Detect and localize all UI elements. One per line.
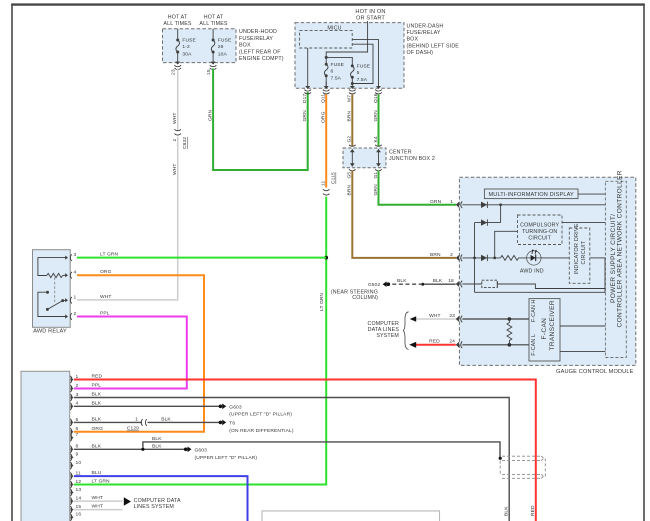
connector exit pin 23 (fuse 1-2) — [174, 62, 181, 70]
svg-text:AWD IND: AWD IND — [520, 269, 544, 275]
svg-text:7.5A: 7.5A — [357, 77, 368, 83]
ground T6 row5 — [219, 421, 223, 425]
wire pin2 branch up to compulsory box — [495, 231, 518, 258]
svg-text:CENTER: CENTER — [389, 149, 412, 155]
wire GRN Q16 to center junction box — [378, 95, 380, 147]
svg-text:BLU: BLU — [92, 470, 102, 476]
svg-text:HOT AT: HOT AT — [204, 15, 224, 21]
svg-text:6: 6 — [331, 69, 334, 75]
row1 wire RED to bottom right — [74, 380, 536, 521]
svg-text:2: 2 — [74, 311, 77, 317]
svg-text:FUSE: FUSE — [357, 64, 371, 70]
wire BLK pin18 external to G502 — [423, 283, 456, 285]
wire compulsory box to power supply box — [562, 222, 605, 224]
MICU box — [300, 31, 353, 48]
wire IDC to power bus — [590, 257, 606, 259]
svg-text:BRN: BRN — [430, 252, 441, 258]
svg-text:5: 5 — [357, 70, 360, 76]
svg-text:COMPULSORY: COMPULSORY — [520, 223, 559, 229]
svg-text:18: 18 — [448, 278, 454, 284]
svg-text:WHT: WHT — [172, 164, 178, 176]
gauge pin 2 connector — [456, 255, 463, 262]
MICU wire to Q16 exit — [352, 40, 378, 87]
indicator drive circuit box — [569, 228, 590, 283]
bottom partial box — [262, 511, 440, 521]
relay actuator dashed line — [54, 278, 56, 304]
svg-text:1-2: 1-2 — [182, 44, 190, 50]
svg-text:UNDER-DASH: UNDER-DASH — [407, 23, 444, 29]
svg-text:BLK: BLK — [152, 436, 162, 442]
pin24 internal wire F-CAN L — [462, 344, 529, 346]
fuse 5 7.5A — [351, 64, 355, 87]
svg-text:CONTROLLER AREA NETWORK CONTRO: CONTROLLER AREA NETWORK CONTROLLER — [617, 170, 624, 327]
svg-text:CIRCUIT: CIRCUIT — [581, 240, 587, 264]
wires transceiver to power box — [560, 325, 605, 327]
svg-text:11: 11 — [321, 181, 327, 186]
svg-text:23: 23 — [171, 69, 177, 75]
wire WHT fuse1-2 to C832 — [177, 69, 179, 131]
svg-text:BLK: BLK — [92, 417, 102, 423]
svg-text:BLK: BLK — [161, 417, 171, 423]
svg-text:7.5A: 7.5A — [331, 76, 342, 82]
svg-text:G603: G603 — [229, 404, 242, 410]
row5 wire BLK via C129 to ground T6 — [74, 421, 142, 423]
svg-text:4: 4 — [74, 270, 77, 276]
ground G502 — [331, 281, 390, 301]
relay wire labels — [100, 269, 112, 317]
svg-text:BLK: BLK — [92, 443, 102, 449]
svg-text:LT GRN: LT GRN — [100, 252, 119, 258]
svg-text:OR START: OR START — [356, 16, 385, 22]
svg-text:D17: D17 — [302, 94, 308, 103]
wire LT GRN relay pin3 to junction — [77, 257, 326, 259]
svg-text:ORG: ORG — [92, 426, 104, 432]
AWD relay box — [33, 250, 71, 328]
svg-text:30A: 30A — [182, 52, 192, 58]
svg-text:16: 16 — [76, 512, 82, 518]
fuse5 feedback wire to MICU — [351, 44, 373, 85]
computer data lines arrow + text — [124, 497, 131, 505]
svg-text:7: 7 — [76, 432, 79, 438]
wire BRN M7 to center junction box — [351, 95, 353, 147]
svg-text:WHT: WHT — [172, 113, 178, 125]
svg-text:MULTI-INFORMATION DISPLAY: MULTI-INFORMATION DISPLAY — [488, 192, 574, 198]
svg-text:JUNCTION BOX 2: JUNCTION BOX 2 — [389, 156, 435, 162]
svg-text:1: 1 — [450, 199, 453, 205]
under-dash box label — [407, 23, 460, 56]
row7 wire BLK long, joins row8 — [143, 442, 500, 458]
pin1 internal wiring with diodes — [462, 202, 605, 293]
svg-text:10: 10 — [76, 460, 82, 466]
svg-text:WHT: WHT — [429, 313, 441, 319]
svg-text:G603: G603 — [195, 447, 208, 453]
under-dash fuse/relay box — [295, 23, 404, 89]
ground G603 row8 — [184, 448, 188, 452]
svg-text:2: 2 — [450, 252, 453, 258]
svg-text:PPL: PPL — [92, 383, 102, 389]
svg-text:HOT IN ON: HOT IN ON — [355, 9, 385, 15]
computer data lines brace + text — [403, 312, 408, 350]
svg-text:LINES SYSTEM: LINES SYSTEM — [134, 504, 174, 510]
svg-text:TRANSCEIVER: TRANSCEIVER — [549, 300, 556, 350]
svg-text:1: 1 — [74, 295, 77, 301]
svg-text:BLK: BLK — [92, 400, 102, 406]
gauge pin 1 connector — [456, 202, 463, 209]
svg-text:LT GRN: LT GRN — [92, 479, 111, 485]
pin2 wire diode resistor — [462, 255, 500, 261]
dashed pass-through connector (bottom right) — [500, 456, 545, 478]
connector exit pin 15 (fuse 29) — [210, 62, 217, 70]
svg-text:FUSE: FUSE — [182, 38, 196, 44]
wire RED pin24 external — [416, 344, 456, 346]
junction box G2 entry — [349, 145, 356, 171]
connector C115 — [323, 189, 329, 195]
MICU wire down to D17 exit — [307, 48, 309, 87]
svg-text:AWD RELAY: AWD RELAY — [33, 329, 67, 335]
wire WHT pin23 external — [416, 318, 456, 320]
svg-text:12: 12 — [76, 479, 82, 485]
center junction box 2 — [343, 148, 386, 168]
svg-text:FUSE: FUSE — [218, 38, 232, 44]
svg-text:UNDER-HOOD: UNDER-HOOD — [239, 29, 277, 35]
F-CAN transceiver box — [529, 299, 560, 361]
svg-text:(UPPER LEFT "D" PILLAR): (UPPER LEFT "D" PILLAR) — [229, 411, 292, 417]
svg-text:RED: RED — [429, 339, 440, 345]
row11 wire BLU to bottom — [74, 476, 248, 521]
svg-text:GAUGE CONTROL MODULE: GAUGE CONTROL MODULE — [556, 369, 634, 375]
svg-text:(LEFT REAR OF: (LEFT REAR OF — [239, 49, 281, 55]
svg-text:(UPPER LEFT "D" PILLAR): (UPPER LEFT "D" PILLAR) — [195, 455, 258, 461]
wire hot-in-on into box — [325, 21, 368, 65]
relay coil circuit — [38, 258, 67, 278]
fuse 6 7.5A — [324, 63, 328, 87]
svg-text:G502: G502 — [368, 282, 381, 288]
svg-text:T6: T6 — [229, 420, 235, 426]
svg-text:2: 2 — [76, 383, 79, 389]
gauge pin 18 connector — [456, 281, 463, 288]
svg-text:FUSE/RELAY: FUSE/RELAY — [239, 36, 273, 42]
svg-text:9: 9 — [76, 452, 79, 458]
svg-text:1: 1 — [135, 417, 138, 423]
svg-text:RED: RED — [530, 505, 536, 516]
svg-text:ORG: ORG — [100, 269, 112, 275]
connector C832 — [175, 129, 181, 135]
svg-text:WHT: WHT — [92, 504, 104, 510]
svg-text:BLK: BLK — [433, 278, 443, 284]
svg-text:ALL TIMES: ALL TIMES — [163, 21, 191, 27]
gauge pin 24 connector — [456, 342, 463, 349]
wire LT GRN C115 down to row12 — [74, 197, 326, 485]
svg-text:GRN: GRN — [302, 110, 308, 122]
svg-text:FUSE: FUSE — [331, 62, 345, 68]
svg-text:C129: C129 — [127, 426, 139, 432]
svg-text:SYSTEM: SYSTEM — [376, 333, 399, 339]
relay switch — [38, 291, 67, 317]
ground G603 row4 — [219, 405, 223, 409]
row8 wire BLK to ground G603 — [74, 448, 184, 450]
svg-text:WHT: WHT — [100, 294, 112, 300]
svg-text:CIRCUIT: CIRCUIT — [528, 236, 551, 242]
row3 wire BLK long to bottom right — [74, 398, 509, 521]
AWD control unit connector box (bottom left) — [21, 371, 70, 521]
svg-text:BLK: BLK — [397, 278, 407, 284]
fuse 1-2 30A — [176, 29, 180, 63]
svg-text:LT GRN: LT GRN — [319, 292, 325, 311]
compulsory turning-on circuit box — [518, 215, 563, 245]
junction dot LT GRN — [324, 256, 328, 260]
svg-text:OF DASH): OF DASH) — [407, 50, 434, 56]
wire PPL relay pin2 to big box row2 — [74, 317, 187, 389]
pin18 internal wire with open jumper — [462, 280, 605, 288]
relay pin connectors 3,4,1,2 — [65, 254, 72, 320]
svg-text:G2: G2 — [347, 136, 353, 143]
power supply circuit box — [605, 181, 626, 357]
svg-text:ALL TIMES: ALL TIMES — [199, 21, 227, 27]
connector C129 — [141, 419, 147, 426]
svg-text:WHT: WHT — [92, 495, 104, 501]
svg-text:3: 3 — [74, 252, 77, 258]
fuse 29 10A — [211, 29, 215, 63]
svg-text:(BEHIND LEFT SIDE: (BEHIND LEFT SIDE — [407, 43, 460, 49]
svg-text:HOT AT: HOT AT — [168, 15, 188, 21]
svg-text:C832: C832 — [182, 137, 188, 149]
svg-text:6: 6 — [76, 426, 79, 432]
svg-text:BOX: BOX — [239, 43, 251, 49]
row14 wire WHT to computer data lines — [74, 500, 123, 502]
under-dash exits D17 Q11 M7 Q16 — [302, 86, 382, 123]
under-hood fuse/relay box — [163, 15, 237, 63]
svg-text:BOX: BOX — [407, 37, 419, 43]
big box pin connectors 1-16 — [70, 376, 73, 521]
svg-text:10A: 10A — [218, 52, 228, 58]
under-hood box label — [239, 29, 284, 62]
termination resistor between F-CAN lines — [507, 319, 512, 345]
wire WHT C832 to AWD relay pin 1 — [77, 137, 178, 300]
svg-text:F-CAN L: F-CAN L — [531, 334, 537, 356]
svg-text:F-CAN: F-CAN — [541, 318, 548, 340]
svg-text:MICU: MICU — [327, 25, 341, 31]
svg-text:ENGINE COMPT): ENGINE COMPT) — [239, 56, 284, 62]
wire ORG relay pin4 to big box row6 — [74, 275, 204, 432]
svg-text:23: 23 — [449, 313, 455, 319]
svg-text:K4: K4 — [373, 136, 379, 142]
wire ORG Q11 to C115 — [325, 95, 327, 188]
svg-text:15: 15 — [206, 69, 212, 75]
wire AWD IND to indicator drive circuit — [541, 257, 569, 259]
svg-text:BLK: BLK — [503, 506, 509, 516]
svg-text:COLUMN): COLUMN) — [352, 295, 378, 301]
svg-text:24: 24 — [449, 339, 455, 345]
wire BRN G5 to gauge pin 2 — [352, 171, 456, 258]
wire GRN G1 to gauge pin 1 — [379, 171, 457, 205]
svg-text:29: 29 — [218, 44, 224, 50]
svg-text:BLK: BLK — [152, 443, 162, 449]
gauge pin 23 connector — [456, 316, 463, 323]
wire Q11 stub — [325, 81, 327, 87]
row4 wire BLK to ground G603 — [74, 405, 219, 407]
svg-text:(ON REAR DIFFERENTIAL): (ON REAR DIFFERENTIAL) — [229, 428, 294, 434]
junction box K4 entry — [375, 145, 382, 171]
AWD IND lamp — [527, 249, 541, 265]
multi-information display box U2 — [484, 189, 578, 199]
svg-text:BLK: BLK — [92, 392, 102, 398]
svg-text:F-CAN H: F-CAN H — [531, 299, 537, 322]
svg-text:GRN: GRN — [430, 199, 442, 205]
svg-text:13: 13 — [76, 487, 82, 493]
svg-text:GRN: GRN — [207, 109, 213, 121]
junction dot row7 wire at dashed connector — [499, 457, 502, 460]
svg-text:TURNING-ON: TURNING-ON — [522, 229, 557, 235]
row15 wire WHT — [74, 509, 123, 511]
resistor R (pin2 to AWD IND) — [501, 256, 527, 261]
wire GRN fuse29 to D17 — [213, 69, 308, 171]
wire MID to power supply box — [578, 193, 605, 195]
gauge control module box — [459, 177, 635, 365]
pin23 internal wire F-CAN H — [462, 318, 529, 320]
svg-text:RED: RED — [92, 374, 103, 380]
svg-text:INDICATOR DRIVE: INDICATOR DRIVE — [574, 223, 580, 274]
svg-text:FUSE/RELAY: FUSE/RELAY — [407, 30, 441, 36]
svg-text:C115: C115 — [331, 172, 337, 184]
